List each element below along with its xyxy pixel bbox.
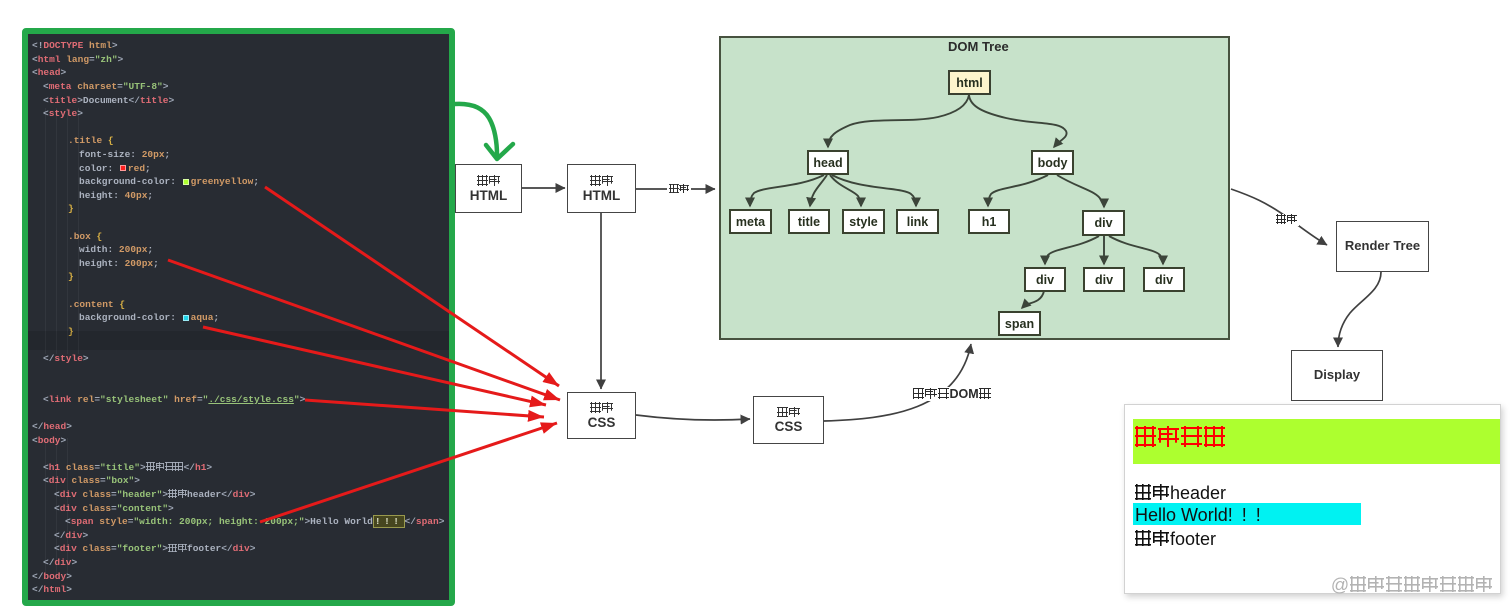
code line 37 <box>54 529 88 543</box>
node html <box>948 70 991 95</box>
code line 36 <box>65 515 444 529</box>
code line 1 <box>32 39 118 53</box>
node meta <box>729 209 772 234</box>
code editor panel <box>22 28 455 606</box>
tree edge body-h1 <box>988 175 1048 206</box>
code line 12 <box>79 189 153 203</box>
code line 18 <box>68 270 74 284</box>
text footer <box>1134 529 1216 550</box>
wire: parse-CSS to DOM panel (attach) <box>824 344 971 421</box>
tree edge body-div <box>1057 175 1104 207</box>
wire: Render Tree to Display <box>1338 272 1381 347</box>
red arrow from box height <box>168 260 560 400</box>
code line 30 <box>32 434 66 448</box>
tree edge head-style <box>830 175 861 206</box>
code line 3 <box>32 66 66 80</box>
code line 39 <box>43 556 77 570</box>
node link <box>896 209 939 234</box>
tree edge div-div2 <box>1103 236 1105 264</box>
node title <box>788 209 830 234</box>
code line 33 <box>43 474 140 488</box>
code line 17 <box>79 257 159 271</box>
watermark <box>1331 575 1493 596</box>
code line 13 <box>68 202 74 216</box>
h1 greenyellow bar <box>1133 419 1500 464</box>
code line 40 <box>32 570 72 584</box>
red arrow from aqua <box>203 327 546 405</box>
code line 24 <box>43 352 89 366</box>
green curved arrow <box>455 104 497 155</box>
node h1 <box>968 209 1010 234</box>
code line 32 <box>43 461 212 475</box>
node div2 <box>1083 267 1125 292</box>
code line 8 <box>68 134 114 148</box>
code line 16 <box>79 243 153 257</box>
DOM Tree panel <box>719 36 1230 340</box>
tree edge head-link <box>832 175 916 206</box>
code line 6 <box>43 107 83 121</box>
rendered page preview panel <box>1124 404 1501 594</box>
code line 11 <box>79 175 259 189</box>
DOM Tree panel title <box>948 39 1009 54</box>
flow box load HTML <box>455 164 522 213</box>
tree edge div-div1 <box>1045 236 1099 264</box>
wire: DOM panel to Render Tree <box>1231 189 1327 245</box>
tree edge div-div3 <box>1109 236 1163 264</box>
code line 2 <box>32 53 123 67</box>
code line 4 <box>43 80 168 94</box>
tree edge html-head <box>828 95 969 147</box>
wire: parse-HTML to DOM panel <box>636 188 715 190</box>
code line 41 <box>32 583 72 597</box>
node span <box>998 311 1041 336</box>
node div mid <box>1082 210 1125 236</box>
code line 35 <box>54 502 174 516</box>
code line 27 <box>43 393 305 407</box>
flow box Display <box>1291 350 1383 401</box>
code line 21 <box>79 311 219 325</box>
tree edge head-title <box>810 175 827 206</box>
red arrow from greenyellow <box>265 187 559 386</box>
node style <box>842 209 885 234</box>
wire: load-CSS to parse-CSS <box>636 415 750 420</box>
hello world aqua bar <box>1133 503 1361 525</box>
node body <box>1031 150 1074 175</box>
darker band <box>28 331 449 350</box>
tree edge html-body <box>969 95 1067 147</box>
code line 29 <box>32 420 72 434</box>
code line 10 <box>79 162 151 176</box>
tree edge head-meta <box>750 175 824 206</box>
code line 15 <box>68 230 102 244</box>
wire: parse-HTML down to load-CSS <box>600 213 602 389</box>
text header <box>1134 483 1226 504</box>
label attach to DOM tree <box>910 387 993 401</box>
wire: load-HTML to parse-HTML <box>522 187 565 189</box>
flow box parse HTML <box>567 164 636 213</box>
flow box Render Tree <box>1336 221 1429 272</box>
node head <box>807 150 849 175</box>
code line 9 <box>79 148 170 162</box>
code line 34 <box>54 488 255 502</box>
code line 22 <box>68 325 74 339</box>
label generate 1 <box>667 184 691 195</box>
flow box load CSS <box>567 392 636 439</box>
tree edge div1-span <box>1022 291 1044 308</box>
code line 20 <box>68 298 125 312</box>
flow box parse CSS <box>753 396 824 444</box>
code line 38 <box>54 542 255 556</box>
node div1 <box>1024 267 1066 292</box>
label generate 2 <box>1274 214 1299 226</box>
node div3 <box>1143 267 1185 292</box>
code line 5 <box>43 94 174 108</box>
red arrow from span style <box>260 423 557 522</box>
red arrow from link href <box>305 400 544 417</box>
